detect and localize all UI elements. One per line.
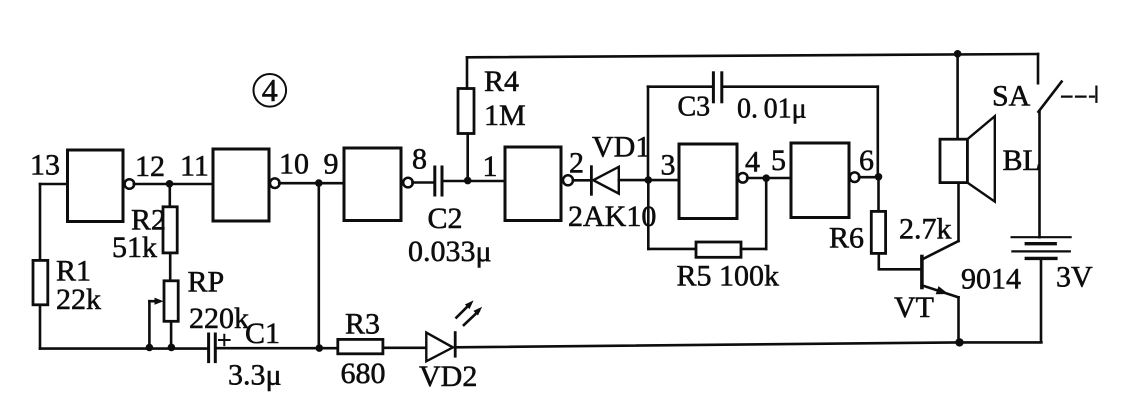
node junction 6	[875, 173, 883, 181]
svg-text:680: 680	[341, 357, 386, 390]
svg-text:2: 2	[569, 147, 584, 180]
svg-text:3V: 3V	[1056, 261, 1093, 294]
resistor R1	[33, 260, 48, 304]
wire: collector up to speaker	[957, 183, 960, 241]
svg-text:1: 1	[483, 150, 498, 183]
wire: R4 top to top rail	[466, 57, 469, 88]
switch SA	[1038, 54, 1096, 112]
resistor R6	[871, 211, 885, 253]
wire: R1 bottom to bottom rail	[39, 305, 42, 349]
svg-text:51k: 51k	[112, 231, 157, 264]
speaker BL	[940, 116, 995, 201]
svg-text:0.033μ: 0.033μ	[408, 235, 492, 268]
svg-text:10: 10	[279, 148, 309, 181]
svg-text:VD1: VD1	[592, 131, 650, 164]
svg-text:R5 100k: R5 100k	[677, 260, 780, 293]
wire: gate D output to VD1 cathode	[573, 179, 591, 182]
svg-text:4: 4	[262, 72, 278, 108]
wire: top rail down to speaker	[956, 54, 959, 139]
capacitor C2	[435, 167, 442, 195]
inverter gate C (pins 9/8)	[344, 148, 413, 221]
svg-text:BL: BL	[1003, 144, 1041, 177]
svg-text:R3: R3	[345, 308, 380, 341]
inverter gate E (pins 3/4)	[679, 144, 748, 219]
node junction 12/11	[166, 180, 174, 188]
svg-text:0. 01μ: 0. 01μ	[737, 94, 807, 125]
node: wiper to rail junction	[146, 344, 154, 352]
node: RP bottom rail junction	[168, 344, 176, 352]
capacitor C1 (polarized)	[209, 334, 230, 362]
svg-text:C3: C3	[678, 92, 711, 123]
inverter gate D (pins 1/2)	[505, 147, 573, 221]
node junction 3	[645, 176, 653, 184]
svg-text:9: 9	[324, 148, 339, 181]
svg-text:VT: VT	[894, 291, 934, 324]
potentiometer RP body	[164, 281, 178, 322]
wire: C2 to gate D input (node 1)	[443, 180, 505, 183]
transistor VT (9014 NPN)	[922, 241, 959, 297]
wire: node 9 down to bottom rail	[317, 183, 320, 348]
wire: top supply rail	[467, 54, 1038, 57]
wire: battery negative down to bottom rail	[1040, 258, 1043, 342]
svg-text:5: 5	[771, 144, 786, 177]
wire: emitter down to bottom rail	[957, 297, 960, 342]
wire: R6 bottom to transistor base	[879, 253, 921, 269]
wire: pin 13 input from left rail to gate A	[40, 183, 68, 186]
potentiometer RP wiper arrow	[149, 298, 163, 305]
svg-text:RP: RP	[188, 266, 225, 299]
wire: R5 branch left segment	[648, 248, 696, 251]
wire: R5 branch right segment	[741, 248, 766, 251]
svg-text:C1: C1	[245, 317, 280, 350]
circled figure number 4	[253, 72, 286, 108]
svg-text:R6: R6	[829, 222, 864, 255]
capacitor C3	[713, 73, 721, 102]
svg-text:SA: SA	[992, 80, 1031, 113]
battery 3V	[1012, 237, 1071, 258]
svg-text:9014: 9014	[961, 263, 1021, 296]
inverter gate B (pins 11/10)	[213, 149, 280, 221]
node junction 4/5	[762, 174, 770, 182]
wire: VD1 anode to gate E input (node 3)	[619, 179, 679, 182]
wire: RP wiper down to bottom rail	[148, 301, 151, 347]
svg-text:12: 12	[135, 150, 165, 183]
diode VD1 (2AK10, pointing left)	[591, 167, 618, 195]
wire: bottom rail VD2 to battery corner	[455, 342, 1041, 347]
LED VD2	[426, 300, 482, 361]
wire: gate C output to C2	[412, 181, 433, 184]
wire: node 12 down to R2	[169, 184, 172, 207]
wire: bottom rail C1 to R3	[217, 347, 338, 350]
svg-text:R4: R4	[484, 65, 519, 98]
svg-text:C2: C2	[428, 202, 463, 235]
svg-text:8: 8	[412, 143, 427, 176]
wire: gate E output to gate F input (node 4/5)	[747, 177, 791, 180]
node: rail junction below node 9	[316, 344, 324, 352]
node junction 10/9	[315, 179, 323, 187]
node junction 1	[464, 177, 472, 185]
inverter gate F (pins 5/6)	[791, 143, 859, 218]
svg-text:3.3μ: 3.3μ	[228, 359, 282, 392]
wire: bottom rail left segment (R1 to C1)	[40, 347, 207, 350]
svg-text:11: 11	[180, 150, 209, 183]
wire: C3 branch down to node 6	[876, 87, 879, 177]
inverter gate A (pins 13/12)	[68, 150, 135, 222]
svg-text:4: 4	[745, 146, 760, 179]
svg-text:3: 3	[661, 149, 676, 182]
resistor R3	[338, 339, 383, 353]
wire: R3 to VD2	[383, 346, 426, 349]
wire: node 3 up to C3 branch	[647, 87, 650, 180]
wire: C3 branch left segment	[648, 85, 712, 88]
svg-text:6: 6	[859, 144, 874, 177]
wire: node 1 up to R4	[466, 134, 469, 181]
wire: left rail vertical (pin13 down to R1 top)	[39, 184, 42, 260]
wire: gate A output to gate B input (node 12/11)	[134, 183, 213, 186]
resistor R5	[696, 242, 741, 257]
wire: switch to battery positive	[1038, 112, 1041, 237]
wire: R5 branch up to node 4/5	[765, 178, 768, 249]
wire: C3 branch right segment	[723, 85, 878, 88]
svg-text:2.7k: 2.7k	[899, 213, 952, 246]
node: emitter to bottom rail junction	[955, 338, 963, 346]
wire: gate F output to node 6	[859, 176, 879, 179]
wire: gate B output to gate C input (node 10/9)	[279, 182, 344, 185]
svg-text:1M: 1M	[484, 99, 526, 132]
node: top rail to speaker junction	[954, 50, 962, 58]
svg-text:VD2: VD2	[419, 360, 477, 393]
wire: node 6 down to R6	[877, 177, 880, 212]
wire: node 3 down to R5 branch	[647, 180, 650, 249]
svg-text:220k: 220k	[189, 302, 249, 335]
svg-text:13: 13	[30, 149, 60, 182]
resistor R4	[458, 89, 474, 134]
svg-text:2AK10: 2AK10	[568, 200, 656, 233]
svg-text:22k: 22k	[56, 283, 101, 316]
wire: RP bottom to bottom rail	[170, 321, 173, 347]
wire: R2 bottom to RP top	[169, 253, 172, 281]
resistor R2	[163, 207, 177, 253]
